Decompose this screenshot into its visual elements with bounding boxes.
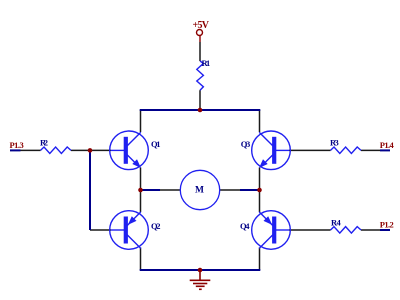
- svg-text:R1: R1: [202, 58, 211, 68]
- svg-text:+5V: +5V: [193, 20, 210, 31]
- svg-text:R2: R2: [40, 138, 48, 148]
- svg-text:R4: R4: [331, 218, 341, 228]
- svg-text:P1.2: P1.2: [380, 220, 394, 230]
- svg-text:M: M: [195, 186, 204, 196]
- svg-text:Q3: Q3: [241, 139, 251, 149]
- svg-text:P1.4: P1.4: [380, 140, 395, 150]
- svg-text:Q2: Q2: [151, 221, 161, 231]
- svg-text:Q4: Q4: [240, 221, 250, 231]
- svg-text:P1.3: P1.3: [10, 140, 24, 150]
- svg-text:R3: R3: [330, 138, 339, 148]
- svg-text:Q1: Q1: [151, 139, 161, 149]
